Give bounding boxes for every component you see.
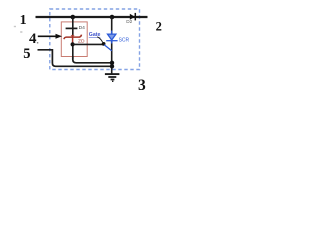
node junction dot lower bottom rail (110, 64, 114, 68)
zener ZD triangle (71, 35, 75, 37)
node junction dot upper bottom rail (110, 61, 114, 65)
svg-text:D4: D4 (79, 25, 86, 31)
svg-text:5: 5 (23, 46, 30, 62)
diode D2 triangle (130, 14, 135, 20)
wire SCR anode vertical (black under blue symbol) (111, 17, 113, 74)
zener ZD bar with bent ends (64, 35, 82, 40)
wire gate tap continues down from zener (72, 43, 74, 59)
node junction dot on top rail at zener branch (71, 15, 76, 20)
pin 4 arrow (38, 34, 62, 39)
diode D4 cathode bar (66, 27, 78, 29)
faint artifact mark left of 1 (14, 26, 16, 27)
wire vertical lead of D4/ZD branch (72, 17, 74, 35)
thyristor SCR symbol (blue) (104, 31, 117, 51)
small tick above 5 (37, 42, 38, 43)
svg-text:3: 3 (138, 77, 146, 94)
wire zener bottom elbow to cathode rail (73, 56, 112, 63)
svg-text:1: 1 (20, 13, 27, 28)
faint artifact mark left of 4 (20, 31, 22, 33)
node dot at gate callout end (102, 42, 106, 46)
ground symbol (105, 74, 120, 81)
zener ZD red lead segment (72, 35, 74, 43)
node junction dot on top rail at SCR branch (110, 15, 115, 20)
wire gate horizontal run (73, 43, 104, 45)
diode D2 cathode bar (134, 13, 136, 21)
svg-text:SCR: SCR (119, 38, 130, 44)
red highlight box around zener clamp (61, 22, 87, 57)
svg-text:ZD: ZD (78, 38, 85, 44)
node junction dot at gate tap (71, 42, 75, 46)
dashed device boundary box (50, 9, 140, 70)
wire top rail pin1 to pin2 (36, 16, 148, 18)
leader curve from Gate label to gate node (97, 37, 102, 42)
wire pin5 lead: horizontal, down, elbow right (38, 50, 113, 67)
svg-text:D2: D2 (126, 19, 132, 24)
svg-text:4: 4 (29, 31, 37, 47)
svg-text:2: 2 (156, 19, 162, 33)
